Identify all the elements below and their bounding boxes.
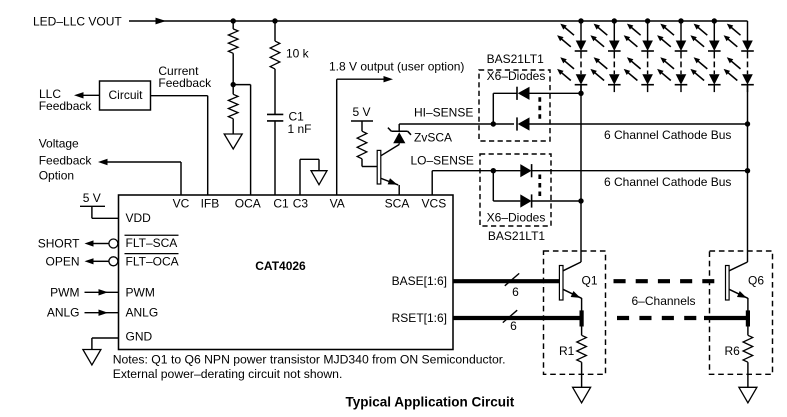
svg-text:ANLG: ANLG [47, 306, 80, 320]
transistor ZvSCA emitter wire with arrow [381, 178, 399, 195]
svg-text:R6: R6 [725, 344, 741, 358]
wire VCS pin to LO-SENSE diode block [432, 171, 520, 195]
svg-text:X6–Diodes: X6–Diodes [487, 69, 546, 83]
transistor Q1 [559, 262, 581, 327]
caption Typical Application Circuit [346, 395, 515, 410]
svg-text:VDD: VDD [126, 211, 152, 225]
block X6-Diodes LO (dashed) [480, 154, 551, 226]
label C1 [289, 109, 305, 123]
svg-text:HI–SENSE: HI–SENSE [414, 105, 473, 119]
LED string 3 (2 LEDs + ellipsis) [624, 21, 654, 92]
label LLC Feedback [39, 87, 93, 113]
junction D1 anode / LED string 1 [578, 91, 583, 96]
diode D2 (to cathode bus 1) [517, 117, 748, 130]
note line 1 [113, 353, 506, 367]
pin label VA [330, 196, 345, 210]
svg-text:PWM: PWM [126, 286, 155, 300]
svg-text:5 V: 5 V [352, 105, 370, 119]
svg-text:VCS: VCS [422, 196, 447, 210]
LED string 6 (2 LEDs + ellipsis) [724, 21, 754, 92]
label SHORT [38, 236, 80, 250]
label PWM (input) [50, 286, 79, 300]
label 6 (BASE bus) [512, 285, 519, 299]
label CAT4026 [255, 259, 306, 273]
svg-text:1 nF: 1 nF [288, 122, 312, 136]
transistor ZvSCA base bar [377, 150, 381, 184]
diode D4 (to LED string 1) [493, 194, 581, 207]
wire FLT-SCA to SHORT with arrow [85, 240, 109, 246]
junction top rail / 10k resistor [272, 18, 277, 23]
svg-text:5 V: 5 V [83, 191, 101, 205]
node LED-LLC VOUT label [33, 14, 122, 28]
junction top rail / LED string 5 [712, 18, 717, 23]
transistor ZvSCA collector wire [381, 143, 399, 156]
svg-text:6–Channels: 6–Channels [632, 294, 696, 308]
svg-text:Notes: Q1 to Q6 NPN power tran: Notes: Q1 to Q6 NPN power transistor MJD… [113, 353, 506, 367]
svg-text:ZvSCA: ZvSCA [414, 130, 452, 144]
channel box Q1 (dashed) [544, 251, 606, 374]
svg-text:Feedback: Feedback [158, 76, 212, 90]
wire VA pin to 1.8 V output arrow [337, 76, 393, 195]
label 1 nF [288, 122, 312, 136]
pin label GND [126, 330, 153, 344]
svg-text:External power–derating circui: External power–derating circuit not show… [113, 367, 343, 381]
svg-text:C1: C1 [273, 196, 289, 210]
label Q1 [582, 273, 598, 287]
label 6 (RSET bus) [510, 319, 517, 333]
resistor 10 k [270, 21, 280, 114]
block X6-Diodes HI (dashed) [479, 70, 550, 141]
bus BASE[1:6] (thick) [453, 279, 559, 283]
wire IFB pin to Circuit box [151, 96, 208, 195]
bus RSET solid into Q6 [704, 316, 748, 320]
supply 5 V at ZvSCA [351, 105, 373, 121]
pin label VCS [422, 196, 447, 210]
pin label C1 [273, 196, 289, 210]
label 6 Channel Cathode Bus (lower) [604, 175, 731, 189]
zener diode ZvSCA [388, 128, 411, 144]
label LO-SENSE [411, 154, 474, 168]
svg-text:Feedback: Feedback [39, 99, 93, 113]
wire 5V to VDD pin [92, 206, 119, 218]
wire diode block internal vertical (HI) [492, 93, 494, 124]
svg-text:1.8 V output (user option): 1.8 V output (user option) [329, 59, 464, 73]
pin label IFB [201, 196, 220, 210]
junction cathode bus 1 / channel 6 [745, 121, 750, 126]
junction top rail / LED string 1 [578, 18, 583, 23]
wire zener to HI-SENSE [398, 124, 400, 131]
junction top rail / LED string 4 [678, 18, 683, 23]
bus RSET[1:6] (thick) [453, 316, 582, 320]
label BAS21LT1 (bottom) [488, 229, 545, 243]
svg-text:R1: R1 [559, 344, 575, 358]
svg-text:10 k: 10 k [286, 46, 310, 60]
svg-text:Voltage: Voltage [39, 136, 79, 150]
label ANLG (input) [47, 306, 80, 320]
label 1.8 V output (user option) [329, 59, 464, 73]
svg-text:Option: Option [39, 169, 74, 183]
pin label VDD [126, 211, 152, 225]
pin label FLT-SCA with overline [125, 235, 179, 250]
resistor divider upper (VOUT to OCA node) [228, 21, 238, 85]
junction LO-SENSE inside diode block [491, 168, 496, 173]
junction top rail / LED string 3 [645, 18, 650, 23]
wire diode block internal vertical (LO) [492, 171, 494, 201]
ellipsis dashes between LO diodes [538, 175, 541, 197]
svg-text:SCA: SCA [385, 196, 410, 210]
ground at GND pin [83, 350, 101, 366]
supply 5 V at VDD [80, 191, 105, 206]
svg-text:OCA: OCA [235, 196, 261, 210]
LED string 2 (2 LEDs + ellipsis) [590, 21, 620, 92]
svg-text:LO–SENSE: LO–SENSE [411, 154, 474, 168]
pin label OCA [235, 196, 261, 210]
svg-text:Q1: Q1 [582, 273, 598, 287]
label R1 [559, 344, 575, 358]
wire FLT-OCA to OPEN with arrow [85, 258, 109, 264]
open-drain bubble FLT-OCA [109, 257, 118, 266]
svg-text:VA: VA [330, 196, 345, 210]
svg-text:BASE[1:6]: BASE[1:6] [392, 274, 447, 288]
label Q6 [748, 273, 764, 287]
LED string 5 (2 LEDs + ellipsis) [690, 21, 720, 92]
svg-text:ANLG: ANLG [126, 306, 159, 320]
junction top rail / divider resistor [231, 18, 236, 23]
wire C3 pin to ground [300, 159, 319, 195]
resistor divider lower (to ground) [228, 85, 238, 134]
svg-text:CAT4026: CAT4026 [255, 259, 306, 273]
pin label RSET[1:6] [392, 311, 447, 325]
wire ANLG input with arrow [85, 310, 119, 316]
svg-text:Typical Application Circuit: Typical Application Circuit [346, 395, 515, 410]
capacitor C1 1 nF [267, 114, 283, 195]
ground below divider [224, 134, 242, 149]
svg-text:Feedback: Feedback [39, 153, 93, 167]
label X6-Diodes (top block) [487, 69, 546, 83]
label 10 k [286, 46, 310, 60]
wire LED string 1 cathode down to Q1 collector [580, 85, 582, 262]
ground below R6 [739, 387, 757, 403]
bus RSET dashed continuation [617, 316, 696, 320]
diode D1 (to LED string 1) [493, 87, 581, 100]
ellipsis dashes between HI diodes [538, 97, 541, 119]
svg-text:X6–Diodes: X6–Diodes [487, 210, 546, 224]
svg-text:GND: GND [126, 330, 153, 344]
svg-text:6: 6 [510, 319, 517, 333]
wire VC pin to Voltage Feedback arrow [98, 159, 181, 195]
svg-text:BAS21LT1: BAS21LT1 [488, 229, 545, 243]
IC CAT4026 body [119, 195, 454, 350]
svg-text:FLT–OCA: FLT–OCA [126, 254, 179, 268]
svg-text:C3: C3 [293, 196, 309, 210]
channel box Q6 (dashed) [710, 251, 773, 374]
wire GND pin to ground [92, 338, 119, 350]
wire HI-SENSE to X6 diode block [399, 123, 514, 125]
svg-text:BAS21LT1: BAS21LT1 [487, 52, 544, 66]
resistor 5V to ZvSCA base [357, 121, 377, 167]
svg-text:VC: VC [173, 196, 190, 210]
LED string 1 (2 LEDs + ellipsis) [557, 21, 587, 92]
label R6 [725, 344, 741, 358]
wire top VOUT rail [129, 18, 748, 25]
junction D4 cathode / LED string 1 [578, 198, 583, 203]
svg-text:RSET[1:6]: RSET[1:6] [392, 311, 447, 325]
junction cathode bus 2 / channel 6 [745, 168, 750, 173]
svg-text:SHORT: SHORT [38, 236, 80, 250]
resistor R6 [743, 318, 753, 387]
wire Circuit to LLC Feedback with arrow [74, 92, 100, 98]
svg-text:6 Channel Cathode Bus: 6 Channel Cathode Bus [604, 128, 731, 142]
label X6-Diodes (bottom block) [487, 210, 546, 224]
pin label VC [173, 196, 190, 210]
pin label ANLG [126, 306, 159, 320]
junction top rail / LED string 2 [612, 18, 617, 23]
label BAS21LT1 (top) [487, 52, 544, 66]
svg-text:6 Channel Cathode Bus: 6 Channel Cathode Bus [604, 175, 731, 189]
label Current Feedback [158, 64, 212, 90]
svg-text:OPEN: OPEN [45, 255, 79, 269]
label 6-Channels [632, 294, 696, 308]
svg-text:6: 6 [512, 285, 519, 299]
svg-text:PWM: PWM [50, 286, 79, 300]
LED string 4 (2 LEDs + ellipsis) [657, 21, 687, 92]
pin label FLT-OCA with overline [125, 254, 179, 269]
bus slash BASE [505, 273, 519, 285]
junction HI-SENSE inside diode block [491, 121, 496, 126]
resistor R1 [577, 318, 587, 387]
ground below R1 [573, 387, 591, 403]
note line 2 [113, 367, 343, 381]
open-drain bubble FLT-SCA [109, 239, 118, 248]
wire LED string 6 cathode down to Q6 collector [747, 85, 749, 262]
diode D3 (to cathode bus 2) [520, 164, 747, 177]
pin label BASE[1:6] [392, 274, 447, 288]
label ZvSCA [414, 130, 452, 144]
label HI-SENSE [414, 105, 473, 119]
svg-text:Circuit: Circuit [108, 88, 143, 102]
svg-text:LED–LLC VOUT: LED–LLC VOUT [33, 14, 122, 28]
svg-text:FLT–SCA: FLT–SCA [126, 236, 178, 250]
wire PWM input with arrow [85, 289, 119, 295]
pin label SCA [385, 196, 410, 210]
label 6 Channel Cathode Bus (upper) [604, 128, 731, 142]
block Circuit [100, 81, 151, 110]
label OPEN [45, 255, 79, 269]
label Circuit [108, 88, 143, 102]
ground at C3 [311, 171, 327, 185]
svg-text:Q6: Q6 [748, 273, 764, 287]
wire OCA pin [233, 85, 250, 195]
bus BASE dashed continuation [614, 279, 715, 283]
svg-text:IFB: IFB [201, 196, 220, 210]
transistor Q6 [726, 262, 748, 327]
node OCA divider tap junction [231, 82, 236, 87]
pin label C3 [293, 196, 309, 210]
pin label PWM [126, 286, 155, 300]
bus slash RSET [503, 310, 517, 322]
label Voltage Feedback Option [39, 136, 93, 182]
